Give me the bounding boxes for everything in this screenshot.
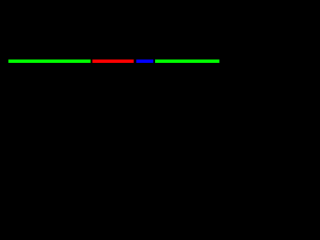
wire segment blue	[136, 60, 153, 63]
wire segment red	[92, 60, 133, 63]
wire segment green2	[155, 60, 219, 63]
wire segment green1	[8, 60, 90, 63]
